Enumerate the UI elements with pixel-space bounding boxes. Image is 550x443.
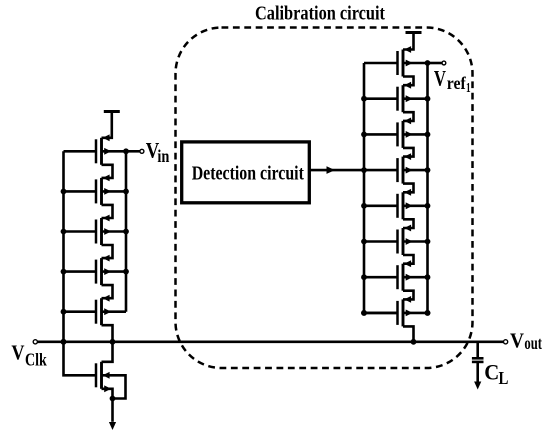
svg-text:Detection circuit: Detection circuit <box>192 162 304 184</box>
svg-text:in: in <box>157 146 169 166</box>
svg-text:L: L <box>499 368 509 388</box>
svg-text:V: V <box>11 340 24 364</box>
svg-text:C: C <box>484 359 499 384</box>
svg-text:Calibration circuit: Calibration circuit <box>255 3 385 25</box>
svg-text:V: V <box>510 328 524 352</box>
svg-text:Clk: Clk <box>25 349 47 369</box>
svg-text:ref: ref <box>447 73 466 93</box>
svg-text:1: 1 <box>466 80 471 95</box>
svg-text:V: V <box>434 65 446 90</box>
svg-text:out: out <box>524 333 542 353</box>
